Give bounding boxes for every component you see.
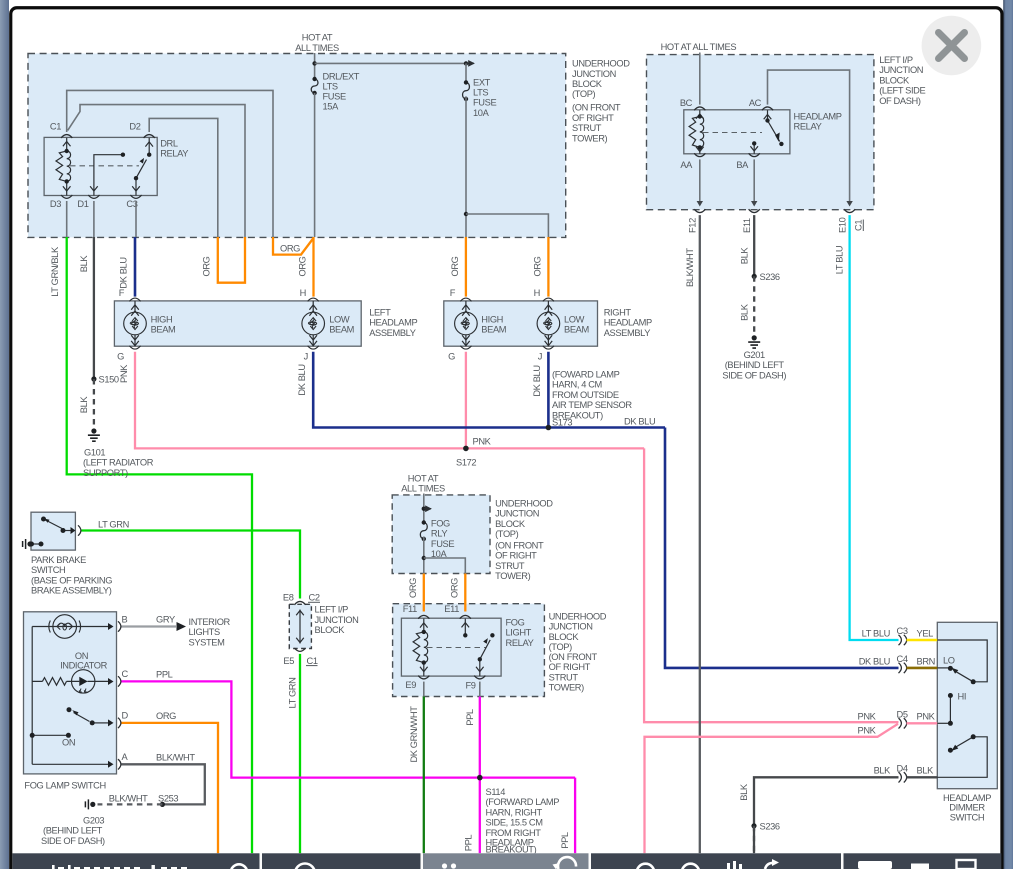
svg-text:JUNCTION: JUNCTION (879, 65, 923, 75)
svg-text:BA: BA (736, 160, 749, 170)
wire BLK dashed to G101 (93, 379, 95, 429)
label underhood junction block top (572, 59, 630, 144)
pin C3 terminal (130, 195, 141, 198)
wire DK BLU left low beam J to S173 bus (313, 352, 665, 428)
pin park brake output (78, 525, 81, 535)
pin F11 terminal (418, 615, 429, 618)
pin E11 terminal (460, 615, 471, 618)
svg-text:DRL/EXT: DRL/EXT (323, 72, 360, 82)
wire PPL from C to S114 bus (122, 681, 576, 777)
svg-text:PPL: PPL (156, 669, 173, 679)
svg-text:TOWER): TOWER) (549, 683, 585, 693)
wire DK BLU right low beam J (547, 352, 550, 428)
svg-text:HOT AT: HOT AT (408, 473, 439, 483)
wire E9 stub (423, 682, 425, 697)
svg-text:AC: AC (749, 98, 762, 108)
svg-text:BLK: BLK (917, 766, 935, 776)
svg-text:(LEFT RADIATOR: (LEFT RADIATOR (83, 458, 154, 468)
svg-text:E11: E11 (444, 604, 459, 614)
dimmer HI contact (937, 696, 950, 724)
svg-text:10A: 10A (473, 108, 490, 118)
svg-text:UNDERHOOD: UNDERHOOD (549, 612, 607, 622)
svg-text:F11: F11 (403, 604, 417, 614)
svg-text:RELAY: RELAY (506, 638, 534, 648)
svg-text:SIDE, 15.5 CM: SIDE, 15.5 CM (486, 818, 543, 828)
ground G203 (85, 799, 95, 809)
wire BLK/WHT from A to S253 (122, 764, 205, 804)
dimmer LO contact (937, 640, 987, 682)
svg-text:PNK: PNK (119, 364, 129, 383)
svg-text:(FOWARD LAMP: (FOWARD LAMP (552, 370, 620, 380)
svg-text:S236: S236 (760, 272, 780, 282)
svg-text:LIGHTS: LIGHTS (189, 627, 220, 637)
svg-text:C1: C1 (50, 122, 61, 132)
wire D3 stub (66, 201, 68, 237)
svg-text:STRUT: STRUT (572, 123, 602, 133)
relay coil headlamp (689, 110, 704, 154)
svg-text:LTS: LTS (323, 82, 338, 92)
svg-text:BLOCK: BLOCK (495, 519, 526, 529)
bulb left HIGH BEAM (124, 298, 147, 349)
bulb right LOW BEAM (537, 298, 560, 349)
wire PPL from F9 through S114 (479, 697, 481, 854)
wire AA down to F12 (699, 159, 701, 203)
svg-text:ORG: ORG (202, 256, 212, 276)
svg-text:HEADLAMP: HEADLAMP (369, 318, 417, 328)
svg-text:PNK: PNK (917, 712, 936, 722)
svg-text:SYSTEM: SYSTEM (189, 637, 225, 647)
svg-text:(BASE OF PARKING: (BASE OF PARKING (31, 575, 112, 585)
svg-text:H: H (300, 288, 306, 298)
wire ORG branch to E11 (464, 574, 466, 612)
wire bus to EXT fuse (315, 62, 466, 64)
svg-text:S173: S173 (552, 418, 572, 428)
pin A terminal (118, 759, 121, 769)
svg-text:(FORWARD LAMP: (FORWARD LAMP (486, 797, 560, 807)
node S150 (91, 376, 96, 381)
svg-text:BRAKE ASSEMBLY): BRAKE ASSEMBLY) (31, 586, 112, 596)
underhood junction block (fog fuse) dashed box (392, 495, 490, 574)
svg-text:SUPPORT): SUPPORT) (83, 468, 128, 478)
label ON INDICATOR (60, 651, 108, 671)
svg-text:BEAM: BEAM (481, 325, 506, 335)
wire ORG fuse to F11 (423, 574, 425, 612)
svg-text:LEFT I/P: LEFT I/P (879, 55, 913, 65)
pin C1 terminal (61, 135, 72, 138)
svg-text:UNDERHOOD: UNDERHOOD (572, 59, 630, 69)
wire BLK from E11 to S236 (753, 215, 755, 276)
svg-text:C2: C2 (309, 593, 320, 603)
svg-text:BLK: BLK (79, 255, 89, 273)
svg-text:HIGH: HIGH (481, 315, 503, 325)
svg-text:S236: S236 (760, 821, 780, 831)
underhood junction block (fog relay) dashed box (393, 604, 545, 697)
svg-text:STRUT: STRUT (495, 561, 525, 571)
wire BLK from S236 riser to D4 (754, 777, 899, 853)
svg-text:BEAM: BEAM (564, 325, 589, 335)
svg-text:DK BLU: DK BLU (859, 657, 890, 667)
svg-text:BLOCK: BLOCK (879, 75, 910, 85)
svg-text:STRUT: STRUT (549, 672, 579, 682)
svg-text:INTERIOR: INTERIOR (189, 617, 231, 627)
svg-text:LT BLU: LT BLU (835, 246, 845, 274)
TOOLBAR (13, 853, 1002, 869)
svg-text:TOWER): TOWER) (572, 133, 608, 143)
svg-text:RLY: RLY (431, 529, 447, 539)
svg-text:BLOCK: BLOCK (572, 79, 603, 89)
svg-text:(TOP): (TOP) (572, 89, 596, 99)
svg-text:G: G (448, 352, 455, 362)
fuse FOG RLY FUSE 10A (420, 523, 427, 539)
svg-text:ON: ON (75, 651, 88, 661)
svg-text:BEAM: BEAM (329, 325, 354, 335)
pin BA terminal (749, 153, 760, 156)
svg-text:HEADLAMP: HEADLAMP (604, 318, 652, 328)
svg-text:FUSE: FUSE (323, 92, 346, 102)
label forward lamp harn note + S173 (552, 370, 632, 428)
pin E9 terminal (418, 676, 429, 679)
connector D5 (899, 718, 907, 728)
svg-text:S253: S253 (158, 793, 178, 803)
wire GRY to interior lights (122, 625, 177, 627)
svg-text:BLOCK: BLOCK (549, 632, 580, 642)
node S172 (463, 446, 469, 452)
wire C3 stub (135, 201, 137, 237)
svg-text:S114: S114 (486, 787, 506, 797)
ground park brake (23, 539, 33, 549)
svg-text:(TOP): (TOP) (549, 642, 573, 652)
svg-text:ORG: ORG (450, 256, 460, 276)
svg-text:DK BLU: DK BLU (119, 257, 129, 288)
svg-text:LIGHT: LIGHT (506, 628, 532, 638)
node S236 (lower) (751, 823, 756, 828)
svg-text:D2: D2 (129, 122, 140, 132)
svg-text:PPL: PPL (464, 835, 474, 852)
svg-text:H: H (534, 288, 540, 298)
wire LT GRN E5 down (299, 654, 301, 853)
svg-text:FUSE: FUSE (431, 539, 454, 549)
svg-text:HARN, 4 CM: HARN, 4 CM (552, 380, 602, 390)
svg-text:G101: G101 (84, 448, 105, 458)
svg-text:PNK: PNK (858, 726, 877, 736)
svg-text:F12: F12 (688, 218, 698, 233)
svg-text:E5: E5 (283, 656, 294, 666)
svg-text:DK BLU: DK BLU (532, 365, 542, 396)
svg-text:15A: 15A (323, 102, 340, 112)
svg-text:J: J (538, 352, 542, 362)
wire BLK D4 to box (907, 776, 938, 778)
relay HEADLAMP RELAY box (684, 110, 790, 154)
pin E11 terminal (749, 209, 760, 212)
svg-text:LOW: LOW (329, 315, 350, 325)
bulb right HIGH BEAM (455, 298, 478, 349)
wire AC up over to E10 (768, 70, 850, 203)
pin C1 connector label (854, 220, 864, 232)
wire BLK/WHT from F12 down (699, 215, 701, 853)
wire BRN C4 to box (907, 667, 938, 670)
svg-text:BLK: BLK (874, 766, 892, 776)
svg-text:D3: D3 (50, 199, 61, 209)
svg-text:FOG LAMP SWITCH: FOG LAMP SWITCH (24, 781, 105, 791)
wire feed to fog fuse (423, 494, 425, 523)
wire PNK left high beam G to S172 bus (135, 352, 644, 449)
wire DK BLU from C3 to left high beam F (134, 237, 137, 297)
wire C1 diagonal branch (to x245 drop) (68, 105, 245, 237)
connector D4 (899, 772, 907, 782)
wire A internal (32, 763, 108, 765)
svg-text:ASSEMBLY: ASSEMBLY (369, 328, 416, 338)
svg-text:E11: E11 (742, 218, 752, 233)
svg-text:PPL: PPL (465, 709, 475, 726)
resistor fog switch (42, 678, 66, 686)
node junction dot EXT fuse tap (464, 61, 468, 65)
svg-text:BLK/WHT: BLK/WHT (685, 248, 695, 287)
svg-text:JUNCTION: JUNCTION (549, 622, 593, 632)
pin BA internal contact (750, 143, 758, 153)
svg-text:SIDE OF DASH): SIDE OF DASH) (41, 836, 105, 846)
svg-text:LT GRN/BLK: LT GRN/BLK (50, 246, 60, 297)
node HOT AT ALL TIMES (fog) (401, 473, 445, 493)
svg-text:BEAM: BEAM (151, 325, 176, 335)
wire DK GRN/WHT from E9 (423, 697, 425, 854)
svg-text:D4: D4 (897, 764, 908, 774)
node S173 (546, 425, 552, 431)
pin E10 terminal (844, 209, 855, 212)
switch blade fog (72, 710, 113, 726)
svg-text:E9: E9 (405, 680, 416, 690)
svg-text:INDICATOR: INDICATOR (60, 661, 108, 671)
svg-text:AA: AA (680, 160, 693, 170)
wire ORG to right high beam F (465, 237, 467, 297)
svg-text:G203: G203 (83, 816, 104, 826)
svg-text:D5: D5 (897, 710, 908, 720)
relay internal dashed link fog (427, 647, 486, 649)
wire PPL S114 down right leg (574, 778, 576, 854)
svg-text:BLK/WHT: BLK/WHT (109, 793, 148, 803)
node HOT AT ALL TIMES (left) (295, 33, 339, 53)
svg-text:C3: C3 (897, 626, 908, 636)
wire PNK D5 to box (907, 722, 938, 724)
wire LT GRN/BLK from D3 (67, 237, 252, 853)
svg-text:C4: C4 (897, 654, 908, 664)
wire feed to BC (699, 53, 701, 105)
svg-text:EXT: EXT (473, 77, 491, 87)
svg-text:ORG: ORG (298, 256, 308, 276)
switch blade park brake (44, 519, 76, 535)
svg-text:OF DASH): OF DASH) (879, 96, 921, 106)
ground G201 (748, 335, 760, 348)
wire ORG to left low beam H (312, 237, 314, 297)
relay switch blade D2-C3 (132, 138, 153, 196)
wire ORG to right low beam H (547, 237, 549, 297)
svg-text:PNK: PNK (473, 437, 492, 447)
svg-text:G201: G201 (744, 350, 765, 360)
svg-text:PPL: PPL (560, 832, 570, 849)
svg-text:ASSEMBLY: ASSEMBLY (604, 328, 651, 338)
svg-text:J: J (304, 352, 308, 362)
node junction dot fuse feed (312, 61, 316, 65)
node S114 (477, 775, 483, 781)
svg-text:BLK: BLK (739, 303, 749, 321)
dimmer lower switch (937, 737, 987, 778)
svg-text:DK GRN/WHT: DK GRN/WHT (409, 706, 419, 763)
svg-text:FROM RIGHT: FROM RIGHT (486, 828, 542, 838)
wire arrow stub right (466, 62, 474, 64)
contact ON position (32, 734, 68, 736)
svg-text:B: B (122, 614, 128, 624)
wire fog branch right (424, 558, 466, 574)
pin C terminal (118, 676, 121, 686)
left I/P junction block dashed box (647, 55, 874, 210)
svg-text:FOG: FOG (431, 519, 450, 529)
svg-text:ORG: ORG (156, 711, 176, 721)
node junction dot fog feed (422, 507, 426, 511)
svg-text:RELAY: RELAY (794, 122, 822, 132)
svg-text:(ON FRONT: (ON FRONT (495, 541, 544, 551)
wire DRL/EXT fuse down (314, 93, 316, 237)
right headlamp assembly box (444, 301, 598, 346)
wire BLK/WHT dashed to G203 (98, 803, 163, 805)
headlamp dimmer switch box (937, 622, 997, 788)
fog lamp switch box (24, 612, 117, 774)
svg-text:ORG: ORG (533, 256, 543, 276)
wire YEL C3 to box (907, 639, 938, 642)
svg-text:ALL TIMES: ALL TIMES (401, 484, 445, 494)
wire ORG from D down (122, 723, 219, 853)
svg-text:ALL TIMES: ALL TIMES (295, 43, 339, 53)
svg-text:S150: S150 (99, 375, 119, 385)
wire PNK right high beam G (465, 352, 467, 449)
svg-text:FUSE: FUSE (473, 98, 496, 108)
svg-text:C1: C1 (854, 220, 864, 231)
svg-text:OF RIGHT: OF RIGHT (549, 662, 591, 672)
svg-text:RIGHT: RIGHT (604, 307, 632, 317)
ground G101 (88, 428, 100, 441)
node S236 (upper) (752, 274, 757, 279)
wire BLK dashed to G201 (753, 276, 755, 335)
svg-text:HEADLAMP: HEADLAMP (943, 793, 991, 803)
svg-text:ORG: ORG (280, 244, 300, 254)
svg-text:E8: E8 (283, 593, 294, 603)
svg-text:BLK: BLK (739, 247, 749, 265)
svg-text:RELAY: RELAY (160, 149, 188, 159)
connector C4 (899, 663, 907, 673)
svg-text:BLK: BLK (739, 783, 749, 801)
svg-text:GRY: GRY (156, 615, 175, 625)
relay coil fog (413, 619, 428, 677)
wire PNK S172 down to dimmer D5 (644, 448, 898, 722)
pin BC terminal (694, 107, 705, 110)
wire BLK from D1 to S150 (93, 237, 95, 379)
wire ORG U-link D2/C1 (218, 237, 245, 283)
svg-text:(TOP): (TOP) (495, 529, 519, 539)
svg-text:DK BLU: DK BLU (624, 416, 655, 426)
relay internal dashed link (70, 165, 139, 167)
svg-text:LT GRN: LT GRN (288, 678, 298, 709)
pin D3 terminal (61, 195, 72, 198)
relay FOG LIGHT RELAY box (401, 618, 501, 676)
svg-text:LOW: LOW (564, 315, 585, 325)
LED ON indicator (72, 670, 114, 693)
svg-text:JUNCTION: JUNCTION (315, 615, 359, 625)
svg-text:OF RIGHT: OF RIGHT (495, 551, 537, 561)
fuse EXT LTS FUSE 10A (465, 63, 467, 82)
svg-text:OF RIGHT: OF RIGHT (572, 113, 614, 123)
svg-text:JUNCTION: JUNCTION (495, 509, 539, 519)
wire arrow stub fog (424, 508, 431, 510)
wire LT GRN park brake to E8 (82, 531, 301, 599)
pin D terminal (118, 718, 121, 728)
connector E8/C2 left I/P junction block (289, 604, 311, 648)
svg-text:F: F (119, 288, 125, 298)
svg-text:LT BLU: LT BLU (862, 629, 890, 639)
pin D2 terminal (144, 135, 155, 138)
svg-text:DIMMER: DIMMER (949, 803, 985, 813)
svg-text:FROM OUTSIDE: FROM OUTSIDE (552, 390, 619, 400)
relay switch blade fog (476, 638, 490, 676)
node S253 (160, 802, 165, 807)
svg-text:ON: ON (62, 738, 75, 748)
svg-text:F: F (450, 288, 456, 298)
svg-text:(ON FRONT: (ON FRONT (549, 652, 598, 662)
wire C1 up and right (to x273 drop) (67, 90, 273, 237)
svg-text:HI: HI (958, 692, 967, 702)
svg-text:(LEFT SIDE: (LEFT SIDE (879, 86, 925, 96)
wire ORG jog to left low beam H (273, 237, 314, 255)
svg-text:YEL: YEL (917, 629, 934, 639)
svg-text:S172: S172 (456, 458, 476, 468)
left headlamp assembly box (114, 301, 361, 346)
svg-text:D: D (122, 711, 129, 721)
svg-text:(ON FRONT: (ON FRONT (572, 103, 621, 113)
svg-text:LEFT: LEFT (369, 307, 391, 317)
svg-text:SWITCH: SWITCH (31, 565, 65, 575)
svg-text:FOG: FOG (506, 618, 525, 628)
pin D1 internal contact (90, 155, 123, 196)
svg-text:ORG: ORG (450, 578, 460, 598)
pin E11 internal contact (462, 619, 470, 636)
wire DK BLU S173 down to dimmer C4 (665, 428, 899, 668)
relay DRL RELAY box (44, 137, 157, 195)
svg-text:BC: BC (680, 98, 693, 108)
svg-text:BREAKOUT): BREAKOUT) (486, 845, 537, 855)
wire feed to DRL/EXT fuse (314, 53, 316, 79)
connector C3 (899, 635, 907, 645)
pin F12 terminal (694, 209, 705, 212)
svg-text:BLK/WHT: BLK/WHT (156, 752, 195, 762)
relay switch blade AC-BA (764, 110, 780, 142)
svg-text:LTS: LTS (473, 88, 488, 98)
svg-text:HEADLAMP: HEADLAMP (794, 112, 842, 122)
wire D1 stub (93, 201, 95, 237)
svg-text:SWITCH: SWITCH (950, 812, 984, 822)
wire D2 up and right (to x217.8 drop) (149, 118, 218, 237)
wire BLK dashed below S236 (753, 826, 755, 854)
svg-text:G: G (117, 352, 124, 362)
svg-text:E10: E10 (837, 217, 847, 233)
svg-text:HARN, RIGHT: HARN, RIGHT (486, 807, 543, 817)
underhood junction block (top) dashed box (28, 54, 566, 238)
svg-text:JUNCTION: JUNCTION (572, 69, 616, 79)
pin AC terminal (762, 107, 773, 110)
svg-text:DK BLU: DK BLU (297, 364, 307, 395)
wire fog fuse down (423, 537, 425, 574)
pin F9 terminal (474, 676, 485, 679)
svg-text:F9: F9 (466, 681, 476, 691)
svg-text:SIDE OF DASH): SIDE OF DASH) (722, 370, 786, 380)
lamp fog switch illumination (32, 615, 113, 765)
wire PNK lower merge (645, 724, 899, 854)
